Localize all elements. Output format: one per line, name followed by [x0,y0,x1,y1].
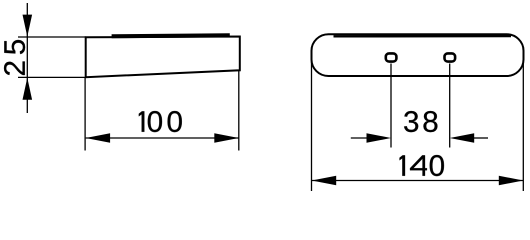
hole left leader line [390,64,392,148]
dim 38 arrow pointing left [450,133,475,143]
hole left [386,53,397,61]
dim 100 left extension line [84,78,86,151]
dim 25 label digit 5 (rotated) [4,40,25,54]
dim 38 left tail line [351,137,368,139]
dim 25 arrow down [23,15,33,37]
dim 100 dimension line [86,137,239,139]
dim 140 right extension line [522,58,524,191]
dim 38 right tail line [473,137,488,139]
dim 100 label digits [139,111,144,131]
dim 100 right extension line [238,71,240,151]
side view: shelf body outline [86,37,240,78]
dim 100 arrow right [214,133,239,143]
dim 100 arrow left [86,133,111,143]
hole right [445,53,456,61]
dim 25 arrow up [23,78,33,100]
side view: top plate thick edge [112,35,230,36]
top view: shelf pill outline [312,34,524,76]
top view: plate thick top edge [334,35,512,38]
dim 140 arrow left [312,176,337,186]
dim 38 arrow pointing right [367,133,392,143]
dim 25 label digit 2 (rotated) [4,61,25,75]
dim 140 arrow right [499,176,524,186]
dim 38 label digits [404,111,418,132]
dim 25 top extension line [18,36,86,38]
hole right leader line [449,64,451,148]
dim 140 dimension line [312,180,524,182]
dim 25 bottom extension line [18,76,86,78]
dim 140 label digits [400,155,405,175]
dim 140 left extension line [311,58,313,191]
dim 25 dimension line [26,3,28,113]
